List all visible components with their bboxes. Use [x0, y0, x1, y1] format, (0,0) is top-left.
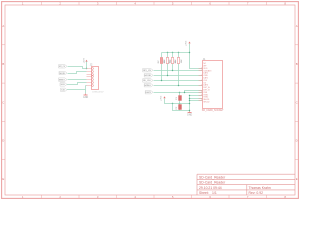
wire label5 to pin7 — [67, 89, 86, 91]
wire DET pin branch — [185, 91, 203, 93]
svg-text:B: B — [2, 62, 4, 66]
junction bus C2 return — [189, 110, 190, 111]
wire label4 to pin6 — [67, 83, 87, 85]
svg-text:1/1: 1/1 — [212, 191, 217, 195]
junction C1 top — [179, 92, 180, 93]
ground GND (SD) — [187, 112, 192, 117]
junction pin1 — [86, 68, 87, 69]
svg-text:SD-Card_Reader: SD-Card_Reader — [199, 175, 226, 179]
svg-text:A: A — [296, 24, 298, 28]
global label CD — [61, 88, 67, 91]
wire label2 to pin2 — [68, 72, 87, 74]
svg-text:+3V3: +3V3 — [186, 40, 188, 46]
svg-text:29.10.21 09:44: 29.10.21 09:44 — [199, 186, 222, 190]
svg-text:D: D — [2, 139, 4, 143]
svg-text:GND: GND — [83, 97, 88, 99]
junction rail R4 — [178, 52, 179, 53]
global label CD2 — [143, 69, 153, 73]
junction R1 wire — [161, 80, 162, 81]
junction rail/drop — [189, 52, 190, 53]
global label SPI_CS — [59, 65, 67, 68]
svg-text:Thomas Krahn: Thomas Krahn — [249, 186, 271, 190]
resistor R4 — [175, 53, 183, 86]
junction rail R2 — [167, 52, 168, 53]
global label DAT1 — [145, 91, 153, 95]
power +3V3 (rail) — [186, 40, 191, 46]
svg-text:SD-Card_Reader: SD-Card_Reader — [199, 181, 226, 185]
svg-text:MISO: MISO — [145, 85, 152, 87]
junction DET branch — [184, 92, 185, 93]
wire power rail — [162, 52, 190, 54]
junction C1 bottom — [179, 103, 180, 104]
svg-text:6: 6 — [201, 94, 202, 96]
wire bus to VSS3 pin — [190, 98, 203, 100]
wire to ground — [86, 86, 87, 94]
junction bus VSS2 — [189, 100, 190, 101]
svg-text:2: 2 — [201, 75, 202, 77]
wire bus to VSS1 pin — [190, 95, 203, 97]
sheet background — [0, 0, 300, 200]
wire label to pin (DAT0) — [154, 85, 203, 87]
wire power to pin1 — [86, 62, 88, 69]
global label MISO2 — [144, 84, 153, 88]
svg-text:E: E — [296, 177, 298, 181]
svg-text:GND: GND — [187, 115, 192, 117]
wire bus to VSS2 pin — [190, 100, 203, 102]
svg-text:10K: 10K — [181, 59, 183, 63]
wire bypass feed — [165, 99, 190, 104]
svg-text:MOSI: MOSI — [145, 75, 152, 77]
svg-text:E: E — [2, 177, 4, 181]
svg-text:8: 8 — [201, 91, 202, 93]
junction bus bypass — [189, 103, 190, 104]
svg-text:3: 3 — [201, 99, 202, 101]
junction bus VSS3 — [189, 98, 190, 99]
junction R3 wire — [172, 70, 173, 71]
svg-text:C: C — [2, 101, 4, 105]
svg-text:1: 1 — [201, 70, 202, 72]
svg-text:Rev: 0.92: Rev: 0.92 — [249, 191, 264, 195]
svg-text:SD_CARD_SOCKET: SD_CARD_SOCKET — [202, 109, 224, 112]
svg-text:Sheet:: Sheet: — [199, 191, 209, 195]
resistor R1 — [158, 53, 166, 81]
connector J2 — [87, 64, 104, 94]
junction R2 wire — [167, 75, 168, 76]
svg-text:4: 4 — [201, 68, 202, 70]
svg-text:SPI_CS: SPI_CS — [59, 66, 65, 68]
svg-text:DAT1: DAT1 — [146, 91, 152, 94]
svg-text:+3V3: +3V3 — [160, 95, 162, 101]
global label MOSI2 — [144, 74, 153, 77]
capacitor C2 — [176, 104, 182, 111]
svg-text:SCK: SCK — [61, 84, 66, 86]
ground GND (J2) — [83, 94, 88, 99]
svg-text:A: A — [2, 24, 4, 28]
svg-text:+3V3: +3V3 — [84, 58, 86, 64]
resistor R2 — [164, 53, 172, 76]
wire C2 bottom to bus — [173, 104, 190, 111]
junction R4 wire — [178, 85, 179, 86]
connector J1 (SD card socket) — [199, 58, 225, 112]
svg-text:SPI_CS: SPI_CS — [143, 70, 152, 72]
global label SCK2 — [143, 79, 153, 82]
junction rail R3 — [172, 52, 173, 53]
svg-text:5: 5 — [201, 80, 202, 82]
resistor R3 — [169, 53, 177, 71]
global label MOSI — [59, 71, 67, 75]
power +3V3 (J2 top) — [84, 58, 88, 64]
svg-text:CONN_01X07: CONN_01X07 — [92, 92, 104, 94]
wire label to pin (CMD) — [154, 75, 203, 77]
wire label to pin (CD) — [154, 70, 203, 72]
wire label3 to pin5 — [68, 79, 87, 81]
border frame — [2, 2, 299, 199]
svg-text:7: 7 — [201, 85, 202, 87]
wire ground bus — [189, 96, 191, 112]
global label MISO — [59, 78, 67, 82]
svg-text:MOSI: MOSI — [60, 73, 66, 75]
wire label1 to pin1 — [68, 67, 87, 69]
wire label to pin (DAT1) — [154, 92, 203, 94]
svg-text:D: D — [296, 139, 298, 143]
wire label to pin (CLK) — [154, 80, 203, 82]
power +3V3 (bypass) — [160, 95, 165, 101]
global label SCK — [60, 83, 67, 86]
title block — [197, 174, 295, 195]
svg-text:SD_CLK: SD_CLK — [143, 80, 151, 82]
svg-text:MISO: MISO — [59, 79, 65, 81]
svg-text:B: B — [296, 62, 298, 66]
junction bus VSS1 — [189, 95, 190, 96]
wire power drop to VDD pin — [190, 44, 203, 69]
svg-text:C: C — [296, 101, 298, 105]
junction bypass/C2 drop — [172, 103, 173, 104]
capacitor C1 — [176, 93, 182, 104]
svg-text:SHLD2: SHLD2 — [203, 102, 209, 104]
